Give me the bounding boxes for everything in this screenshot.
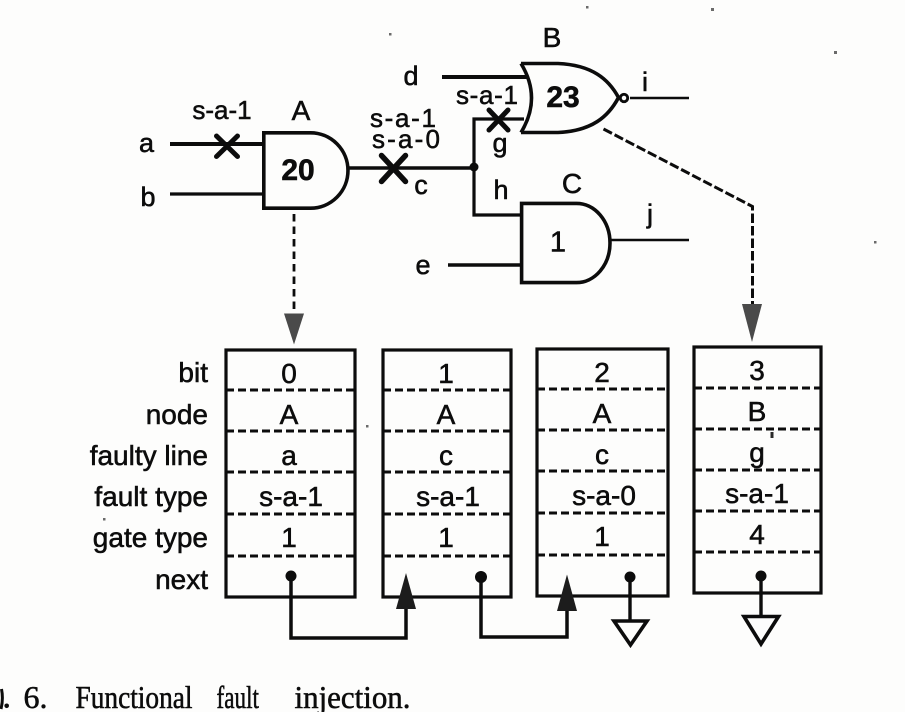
svg-text:c: c — [439, 440, 453, 471]
svg-text:a: a — [139, 128, 155, 158]
fault X on c — [382, 156, 406, 182]
svg-text:node: node — [146, 399, 208, 430]
wire d — [442, 75, 528, 79]
svg-text:B: B — [748, 396, 767, 427]
svg-text:j: j — [646, 199, 653, 229]
wire b — [170, 192, 263, 195]
output bubble of B — [620, 94, 627, 101]
svg-text:c: c — [414, 170, 428, 200]
table bit3 values — [725, 355, 789, 550]
svg-text:6.: 6. — [24, 679, 48, 712]
NOR gate B — [521, 64, 619, 133]
svg-text:B: B — [543, 22, 562, 53]
svg-text:e: e — [415, 250, 430, 280]
svg-text:s-a-1: s-a-1 — [456, 80, 518, 110]
AND gate A — [264, 133, 348, 208]
wire c — [348, 166, 474, 169]
wire junction to g — [474, 119, 524, 167]
svg-text:C: C — [562, 168, 582, 199]
svg-text:s-a-1: s-a-1 — [192, 95, 251, 125]
svg-text:A: A — [292, 95, 311, 126]
wire e — [448, 263, 521, 266]
link arrow bit0 to bit1 — [291, 573, 416, 638]
next pointer dot bit0 — [286, 571, 297, 582]
svg-text:fault type: fault type — [94, 481, 208, 512]
svg-text:b: b — [140, 182, 155, 212]
svg-text:g: g — [492, 128, 507, 158]
fault X on a — [217, 136, 238, 157]
svg-text:4: 4 — [749, 519, 765, 550]
svg-text:1: 1 — [550, 227, 566, 259]
svg-text:A: A — [437, 399, 456, 430]
svg-text:0: 0 — [281, 358, 297, 389]
svg-text:1: 1 — [438, 522, 454, 553]
svg-text:bit: bit — [178, 357, 208, 388]
svg-text:3: 3 — [749, 355, 765, 386]
svg-text:A: A — [280, 399, 299, 430]
dashed arrow from gate A to table bit0 — [284, 214, 304, 345]
wire a — [170, 142, 263, 146]
scan specks — [103, 6, 877, 521]
table bit0 values — [259, 358, 323, 553]
svg-text:g: g — [749, 437, 765, 468]
svg-text:23: 23 — [546, 81, 579, 114]
svg-text:injection.: injection. — [295, 679, 411, 712]
node c junction — [470, 163, 479, 172]
table bit0 box — [226, 350, 355, 597]
svg-text:1: 1 — [438, 358, 454, 389]
caption Fig. 6. Functional fault injection. — [1, 679, 411, 712]
table bit2 values — [572, 357, 636, 552]
svg-text:next: next — [155, 564, 208, 595]
svg-text:20: 20 — [281, 154, 314, 187]
svg-text:faulty line: faulty line — [90, 440, 208, 471]
next pointer dot bit2 — [625, 572, 636, 583]
svg-text:s-a-0: s-a-0 — [572, 480, 636, 511]
svg-text:fault: fault — [217, 679, 260, 712]
next pointer dot bit3 — [756, 571, 767, 582]
svg-text:1: 1 — [594, 521, 610, 552]
svg-text:2: 2 — [594, 357, 610, 388]
svg-text:h: h — [493, 175, 508, 205]
svg-text:a: a — [281, 440, 297, 471]
svg-text:1: 1 — [281, 522, 297, 553]
svg-text:s-a-1: s-a-1 — [725, 478, 789, 509]
svg-text:d: d — [403, 61, 418, 91]
svg-text:s-a-1: s-a-1 — [259, 481, 323, 512]
dashed arrow from gate B to table bit3 — [604, 129, 763, 342]
null terminator under bit2 — [614, 577, 647, 645]
svg-text:gate type: gate type — [93, 522, 208, 553]
table bit1 values — [416, 358, 480, 553]
svg-text:A: A — [593, 398, 612, 429]
svg-text:c: c — [595, 439, 609, 470]
svg-text:s-a-0: s-a-0 — [372, 124, 440, 154]
table bit3 box — [694, 347, 821, 593]
link arrow bit1 to bit2 — [481, 575, 577, 638]
svg-text:s-a-1: s-a-1 — [416, 481, 480, 512]
svg-text:Functional: Functional — [76, 679, 193, 712]
AND gate C — [522, 203, 610, 282]
fault X on g — [489, 110, 508, 130]
wire j — [610, 239, 689, 241]
svg-text:i: i — [642, 67, 648, 97]
wire junction to h — [474, 167, 521, 215]
table bit1 box — [383, 350, 511, 597]
table bit2 box — [537, 349, 668, 596]
null terminator under bit3 — [744, 576, 779, 644]
wire i — [630, 97, 689, 100]
scan artifact tick after g in table bit3 — [771, 432, 774, 438]
next pointer dot bit1 — [475, 571, 487, 583]
